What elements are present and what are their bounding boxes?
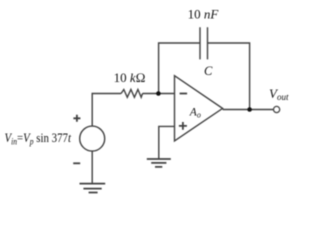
minus sign of source polarity — [73, 162, 80, 164]
op-amp U1 triangle — [175, 76, 223, 141]
svg-text:10 kΩ: 10 kΩ — [114, 70, 146, 85]
svg-text:Vin=Vp sin 377t: Vin=Vp sin 377t — [5, 130, 72, 147]
op-amp inverting input minus sign — [180, 93, 188, 95]
wire: from source top corner to resistor left end — [92, 94, 121, 127]
svg-text:C: C — [204, 64, 213, 78]
wire: resistor right end to op-amp inverting input — [143, 93, 175, 95]
voltage source Vin circle — [80, 126, 105, 151]
wire: source bottom to ground — [91, 151, 93, 184]
svg-text:Ao: Ao — [189, 106, 201, 119]
capacitor C1 plates — [200, 27, 208, 59]
output terminal circle Vout — [274, 106, 280, 112]
ground symbol below source — [80, 184, 106, 193]
resistor R 10 kOhm zigzag — [121, 90, 142, 98]
wire: non-inverting input to ground branch — [159, 126, 175, 159]
node A junction dot (inverting input node) — [156, 91, 161, 96]
plus sign of source polarity — [73, 115, 80, 122]
svg-text:Vout: Vout — [269, 86, 289, 102]
ground symbol at op-amp non-inverting input — [147, 159, 171, 167]
op-amp non-inverting input plus sign — [179, 122, 187, 130]
node B junction dot (output node) — [247, 107, 252, 112]
wire: capacitor right plate to output node B — [208, 43, 250, 110]
wire: op-amp output to terminal — [223, 109, 274, 111]
wire: node A up and over to capacitor left plate — [159, 43, 200, 94]
svg-text:10 nF: 10 nF — [188, 7, 220, 22]
